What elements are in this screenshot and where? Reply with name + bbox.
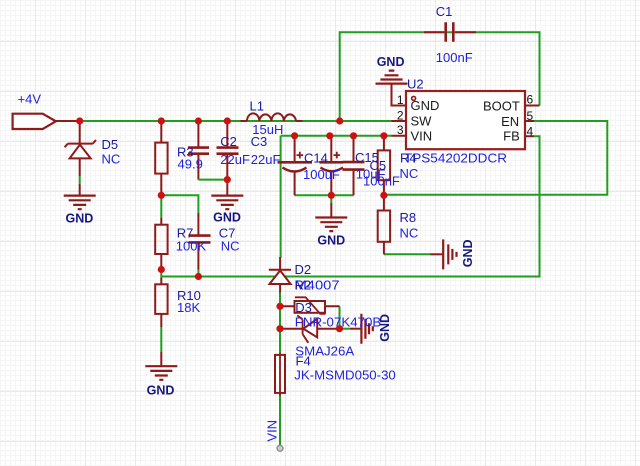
svg-text:R8: R8 — [400, 210, 417, 225]
svg-text:NC: NC — [400, 226, 419, 241]
svg-text:R2: R2 — [295, 278, 312, 293]
svg-text:R7: R7 — [177, 225, 194, 240]
svg-text:22uF: 22uF — [220, 152, 250, 167]
svg-text:C5: C5 — [370, 158, 387, 173]
svg-text:D2: D2 — [295, 262, 312, 277]
svg-text:100uF: 100uF — [303, 167, 340, 182]
svg-text:TPS54202DDCR: TPS54202DDCR — [404, 151, 507, 166]
svg-text:GND: GND — [213, 211, 241, 225]
svg-text:GND: GND — [378, 314, 392, 342]
svg-text:GND: GND — [461, 239, 475, 267]
svg-text:22uF: 22uF — [251, 152, 281, 167]
svg-text:GND: GND — [66, 211, 94, 225]
svg-text:GND: GND — [411, 98, 440, 113]
svg-text:VIN: VIN — [411, 128, 433, 143]
svg-text:FB: FB — [503, 129, 520, 144]
svg-text:2: 2 — [397, 108, 404, 122]
svg-text:D3: D3 — [295, 300, 312, 315]
svg-text:FNR-07K470B: FNR-07K470B — [295, 315, 382, 330]
svg-text:C1: C1 — [436, 4, 453, 19]
svg-text:6: 6 — [527, 93, 534, 107]
svg-text:+4V: +4V — [18, 92, 42, 107]
svg-text:R10: R10 — [177, 288, 201, 303]
svg-text:NC: NC — [400, 166, 419, 181]
svg-text:100nF: 100nF — [436, 50, 473, 65]
svg-text:JK-MSMD050-30: JK-MSMD050-30 — [294, 368, 396, 383]
svg-text:NC: NC — [221, 238, 240, 253]
svg-text:NC: NC — [102, 152, 121, 167]
svg-text:C14: C14 — [304, 150, 328, 165]
svg-text:5: 5 — [527, 109, 534, 123]
svg-text:U2: U2 — [407, 76, 424, 91]
svg-text:C2: C2 — [220, 134, 237, 149]
svg-text:VIN: VIN — [265, 420, 280, 442]
svg-text:100K: 100K — [176, 238, 207, 253]
svg-text:F4: F4 — [296, 354, 311, 369]
svg-text:SW: SW — [411, 114, 433, 129]
svg-text:R4: R4 — [400, 150, 417, 165]
svg-text:EN: EN — [501, 114, 519, 129]
svg-text:L1: L1 — [250, 99, 264, 114]
svg-text:100nF: 100nF — [363, 174, 400, 189]
svg-text:4: 4 — [527, 125, 534, 139]
svg-text:GND: GND — [317, 233, 345, 247]
svg-text:GND: GND — [147, 383, 175, 397]
svg-text:1: 1 — [397, 93, 404, 107]
svg-text:GND: GND — [377, 55, 405, 69]
svg-text:R3: R3 — [177, 145, 194, 160]
svg-text:D5: D5 — [102, 137, 119, 152]
svg-text:C3: C3 — [251, 134, 268, 149]
svg-text:C7: C7 — [219, 225, 236, 240]
svg-text:3: 3 — [397, 123, 404, 137]
svg-text:BOOT: BOOT — [483, 99, 520, 114]
